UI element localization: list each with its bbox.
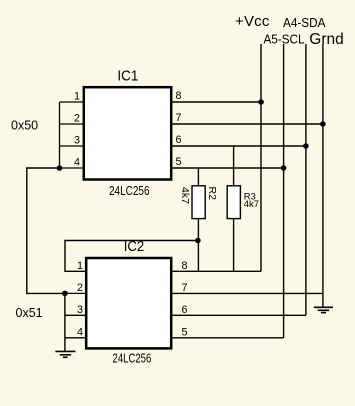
svg-text:3: 3 bbox=[74, 135, 80, 147]
wire A5-SCL vertical bbox=[283, 44, 285, 338]
wire IC1 pin6 to SDA bbox=[171, 145, 306, 147]
svg-text:IC2: IC2 bbox=[124, 239, 145, 255]
wire IC2 pin8 to Vcc bbox=[171, 270, 262, 272]
junction dot R2 bottom / A0 bbox=[195, 238, 201, 244]
svg-text:4: 4 bbox=[77, 326, 83, 338]
svg-text:4k7: 4k7 bbox=[179, 187, 191, 204]
svg-text:8: 8 bbox=[176, 90, 182, 102]
svg-text:R2: R2 bbox=[206, 187, 218, 201]
svg-text:7: 7 bbox=[176, 112, 182, 124]
wire A4-SDA vertical bbox=[305, 44, 307, 315]
svg-text:3: 3 bbox=[77, 304, 83, 316]
svg-text:Grnd: Grnd bbox=[309, 31, 343, 48]
R3 bottom wire bbox=[233, 219, 235, 272]
IC2 left strap pins2-4 to ground bbox=[64, 293, 66, 351]
junction dot IC1 pin4 strap bbox=[57, 165, 63, 171]
R2 body bbox=[192, 186, 205, 219]
IC2 pin2 stub bbox=[65, 292, 86, 294]
svg-text:1: 1 bbox=[74, 91, 80, 103]
ground symbol right bbox=[314, 307, 333, 312]
junction dot pin5/SCL bbox=[281, 165, 287, 171]
R2 bottom wire bbox=[197, 219, 199, 272]
wire +Vcc vertical bbox=[260, 44, 262, 271]
svg-text:5: 5 bbox=[176, 156, 182, 168]
wire IC2 pin5 to SCL bbox=[171, 337, 284, 339]
junction dot IC2 pin2 strap bbox=[62, 291, 68, 297]
svg-text:0x50: 0x50 bbox=[11, 119, 38, 133]
svg-text:2: 2 bbox=[74, 113, 80, 125]
svg-text:2: 2 bbox=[77, 282, 83, 294]
ground symbol left bbox=[55, 351, 75, 357]
junction dot pin8/Vcc bbox=[258, 99, 264, 105]
R3 body bbox=[227, 186, 240, 219]
IC2 pin4 stub bbox=[65, 337, 86, 339]
svg-text:5: 5 bbox=[182, 326, 188, 338]
wire IC1 pin7 to Grnd bbox=[171, 123, 323, 125]
wire IC1 pin8 to +Vcc bbox=[171, 101, 262, 103]
svg-text:4: 4 bbox=[74, 157, 80, 169]
R3 top wire bbox=[233, 146, 235, 186]
junction dot pin7/Grnd bbox=[320, 121, 326, 127]
svg-text:8: 8 bbox=[182, 260, 188, 272]
wire IC2 pin6 to SDA bbox=[171, 314, 306, 316]
svg-text:6: 6 bbox=[182, 304, 188, 316]
IC2 body bbox=[86, 258, 171, 348]
IC1 pin3 stub bbox=[60, 145, 84, 147]
wire IC2 pin7 to Grnd bbox=[171, 292, 323, 294]
IC1 bbox=[60, 69, 182, 199]
svg-text:+Vcc: +Vcc bbox=[235, 13, 270, 30]
svg-text:1: 1 bbox=[77, 260, 83, 272]
R2 top wire bbox=[197, 168, 199, 186]
IC2 bbox=[65, 239, 188, 366]
svg-text:A4-SDA: A4-SDA bbox=[283, 15, 326, 30]
svg-text:IC1: IC1 bbox=[117, 69, 138, 85]
svg-text:7: 7 bbox=[182, 282, 188, 294]
svg-text:0x51: 0x51 bbox=[16, 306, 43, 320]
wire IC2 pin1 riser (A0 high) bbox=[65, 241, 198, 272]
IC2 pin3 stub bbox=[65, 314, 86, 316]
junction dot pin6/SDA bbox=[303, 143, 309, 149]
wire IC1 pin4 to IC2 pin2 (address strap) bbox=[27, 168, 65, 293]
wire IC1 pin5 to SCL bbox=[171, 167, 284, 169]
svg-text:4k7: 4k7 bbox=[244, 199, 259, 210]
svg-text:24LC256: 24LC256 bbox=[113, 352, 152, 366]
IC1 pin4 stub bbox=[60, 167, 84, 169]
resistor R2 bbox=[179, 168, 218, 271]
wire Grnd vertical bbox=[322, 44, 324, 307]
IC1 pin1 stub bbox=[60, 101, 84, 103]
resistor R3 bbox=[227, 146, 259, 271]
IC1 body bbox=[84, 87, 171, 179]
IC1 left strap pins1-4 bbox=[59, 102, 61, 168]
IC1 pin2 stub bbox=[60, 123, 84, 125]
svg-text:6: 6 bbox=[176, 134, 182, 146]
svg-text:24LC256: 24LC256 bbox=[109, 184, 150, 198]
